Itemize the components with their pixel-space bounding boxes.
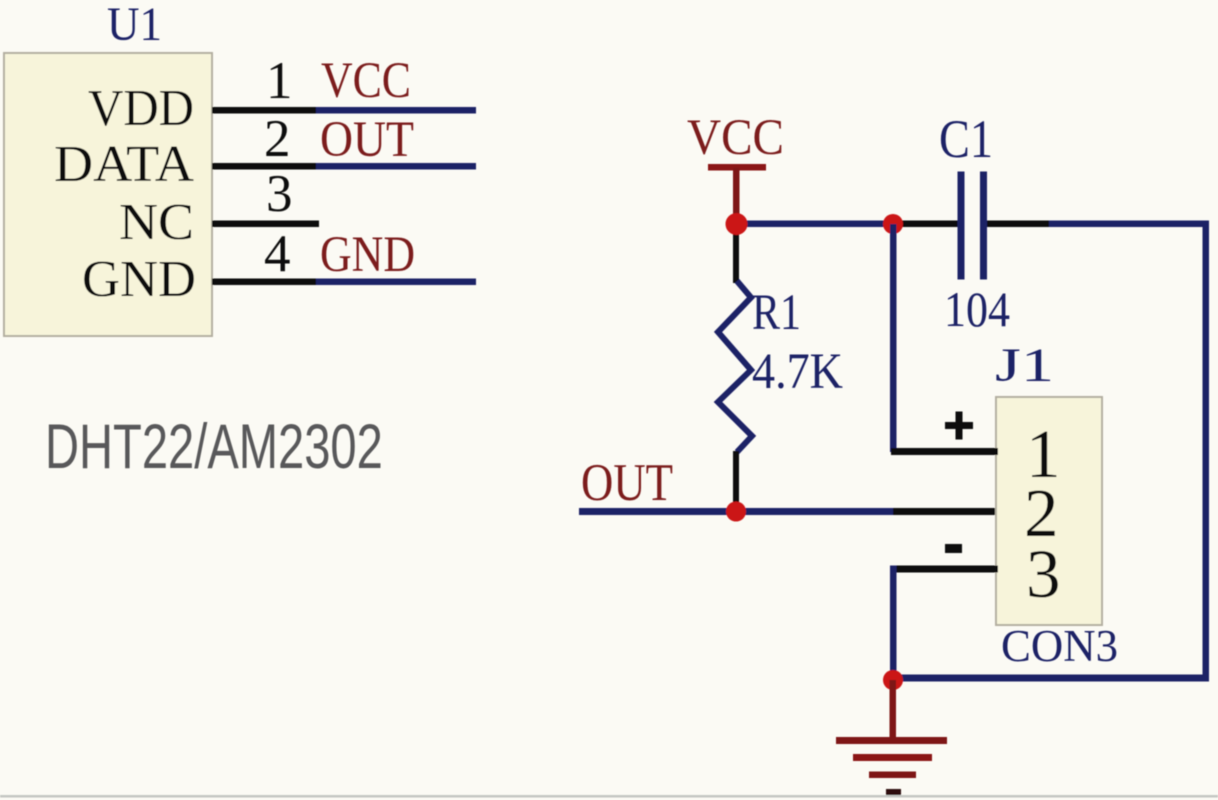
svg-text:3: 3 [1026, 536, 1061, 612]
connector J1 body [996, 397, 1102, 625]
svg-text:GND: GND [82, 251, 196, 308]
wire VCC to R1 top (black) [733, 227, 739, 283]
junction dot at ground node [883, 670, 903, 690]
svg-text:R1: R1 [752, 285, 801, 341]
svg-text:CON3: CON3 [1001, 621, 1118, 671]
svg-text:VCC: VCC [321, 53, 411, 109]
svg-text:4: 4 [264, 225, 291, 283]
junction dot at OUT [726, 502, 746, 522]
capacitor C1 right plate [980, 172, 987, 280]
svg-text:VDD: VDD [88, 80, 194, 137]
svg-text:4.7K: 4.7K [752, 344, 843, 400]
svg-text:DHT22/AM2302: DHT22/AM2302 [45, 411, 383, 481]
svg-text:VCC: VCC [687, 110, 784, 166]
power symbol VCC stem [733, 168, 740, 218]
ground bar 2 [853, 754, 932, 761]
junction dot at C1 node [883, 214, 903, 234]
wire OUT horizontal (navy) [579, 508, 899, 515]
wire C1 right plate to right corner (navy) [987, 221, 1209, 228]
resistor R1 zigzag [718, 281, 752, 452]
svg-text:C1: C1 [939, 109, 993, 169]
plus sign at J1 pin1 [945, 412, 973, 440]
svg-text:U1: U1 [107, 0, 162, 51]
svg-text:1: 1 [266, 52, 293, 110]
pin 3 stub (black, unconnected) [212, 221, 319, 228]
svg-text:104: 104 [944, 281, 1010, 337]
pin 1 stub (black) [212, 107, 316, 114]
IC U1 body [4, 53, 212, 336]
junction dot at VCC [726, 213, 748, 235]
pin 4 wire (navy) [310, 279, 476, 286]
svg-text:GND: GND [320, 227, 415, 283]
svg-text:NC: NC [119, 194, 194, 251]
bottom border line [0, 795, 1218, 798]
J1 pin 3 stub (black) [891, 566, 998, 573]
svg-text:OUT: OUT [581, 454, 673, 512]
J1 pin 2 stub (black) [893, 508, 998, 515]
wire right vertical (navy) [1203, 221, 1210, 679]
ground stem [890, 680, 897, 740]
ground bar 4 (small dash) [886, 789, 901, 795]
svg-text:2: 2 [264, 110, 291, 168]
wire C1 right plate to right (black) [987, 221, 1049, 228]
wire VCC node to C1 left plate (navy) [736, 221, 958, 228]
wire node to C1 left plate (black) [895, 221, 958, 228]
wire C1 node down to J1 pin1 (navy) [890, 224, 897, 452]
pin 2 wire (navy) [310, 163, 476, 170]
power symbol VCC bar [708, 164, 766, 171]
svg-text:J1: J1 [995, 339, 1054, 392]
svg-text:DATA: DATA [54, 136, 194, 193]
capacitor C1 left plate [958, 172, 965, 280]
J1 pin 1 stub (black) [891, 448, 998, 455]
pin 4 stub (black) [212, 279, 316, 286]
pin 1 wire (navy) [310, 107, 476, 114]
ground bar 3 [869, 772, 916, 779]
ground bar 1 [836, 737, 947, 744]
svg-text:OUT: OUT [320, 112, 414, 168]
minus sign at J1 pin3 [945, 544, 962, 553]
pin 2 stub (black) [212, 163, 316, 170]
wire J1 pin3 down to ground node (navy) [890, 566, 897, 681]
wire R1 bottom to OUT node (black) [733, 451, 739, 511]
wire bottom horizontal (navy) [893, 675, 1209, 682]
svg-text:3: 3 [266, 165, 293, 223]
